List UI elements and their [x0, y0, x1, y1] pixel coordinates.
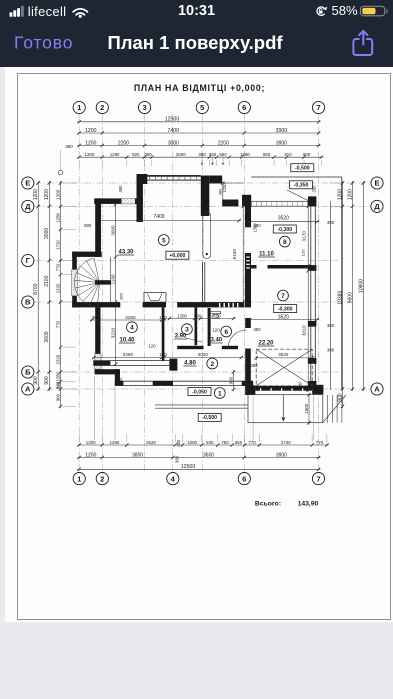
svg-text:3600: 3600 [44, 331, 50, 342]
svg-text:6: 6 [242, 474, 246, 483]
svg-text:3000: 3000 [176, 152, 186, 157]
svg-text:8: 8 [283, 239, 287, 246]
svg-text:120: 120 [159, 352, 167, 357]
svg-text:4: 4 [171, 474, 176, 483]
svg-text:2200: 2200 [118, 140, 129, 146]
svg-text:-0,050: -0,050 [192, 389, 207, 395]
svg-text:1300: 1300 [177, 313, 187, 318]
svg-text:1720: 1720 [55, 240, 60, 250]
svg-text:380: 380 [250, 363, 258, 368]
svg-text:900: 900 [303, 152, 311, 157]
svg-text:1200: 1200 [84, 152, 94, 157]
svg-text:3220: 3220 [111, 328, 116, 339]
svg-text:900: 900 [229, 376, 234, 384]
svg-text:2100: 2100 [44, 275, 50, 286]
svg-text:3170: 3170 [301, 231, 306, 242]
svg-text:ПЛАН НА ВІДМІТЦІ +0,000;: ПЛАН НА ВІДМІТЦІ +0,000; [134, 83, 265, 93]
svg-text:+0,000: +0,000 [169, 253, 185, 259]
svg-text:1280: 1280 [55, 371, 60, 381]
svg-text:2: 2 [100, 103, 104, 112]
svg-text:380: 380 [327, 220, 335, 225]
svg-text:380: 380 [119, 292, 124, 299]
svg-text:4: 4 [130, 325, 134, 332]
svg-text:1: 1 [218, 390, 222, 397]
svg-text:120: 120 [159, 315, 167, 320]
svg-text:22.20: 22.20 [258, 341, 274, 347]
svg-text:3900: 3900 [276, 140, 287, 146]
svg-text:3: 3 [142, 103, 146, 112]
svg-text:380: 380 [118, 377, 123, 384]
svg-text:1690: 1690 [240, 152, 250, 157]
svg-text:1: 1 [77, 474, 82, 483]
svg-text:2320: 2320 [55, 354, 60, 364]
svg-text:380: 380 [92, 315, 100, 320]
svg-text:770: 770 [248, 440, 256, 445]
svg-text:Д: Д [25, 202, 31, 211]
svg-text:Е: Е [374, 179, 379, 188]
svg-text:3260: 3260 [123, 352, 134, 357]
svg-text:-0,300: -0,300 [278, 306, 293, 312]
svg-text:3.90: 3.90 [175, 334, 187, 340]
svg-text:1280: 1280 [110, 440, 120, 445]
svg-text:390: 390 [194, 313, 202, 318]
svg-text:А: А [374, 385, 380, 394]
svg-text:9600: 9600 [347, 292, 353, 303]
svg-text:380: 380 [198, 152, 206, 157]
svg-text:1200: 1200 [337, 189, 343, 200]
svg-text:380: 380 [145, 152, 153, 157]
svg-text:1000: 1000 [187, 440, 197, 445]
svg-text:380: 380 [118, 185, 123, 193]
svg-text:900: 900 [337, 393, 343, 402]
svg-text:Всього:: Всього: [255, 501, 281, 508]
svg-text:1: 1 [77, 103, 82, 112]
svg-text:10.40: 10.40 [119, 338, 135, 344]
svg-text:7400: 7400 [168, 128, 180, 134]
svg-text:2740: 2740 [281, 440, 291, 445]
svg-text:1200: 1200 [85, 128, 97, 134]
svg-text:770: 770 [55, 320, 60, 328]
svg-text:11.10: 11.10 [259, 252, 274, 258]
svg-text:380: 380 [55, 381, 60, 388]
svg-text:7: 7 [281, 293, 285, 300]
svg-text:3000: 3000 [44, 228, 50, 239]
svg-text:380: 380 [327, 323, 335, 328]
svg-text:5100: 5100 [232, 249, 237, 260]
svg-text:3260: 3260 [125, 315, 136, 320]
svg-text:1320: 1320 [55, 283, 60, 293]
svg-text:650: 650 [263, 152, 271, 157]
svg-text:120: 120 [301, 249, 306, 256]
svg-text:8700: 8700 [33, 283, 39, 294]
svg-text:4.80: 4.80 [184, 361, 196, 367]
svg-text:10800: 10800 [358, 279, 364, 293]
svg-text:380: 380 [253, 327, 261, 332]
svg-text:1200: 1200 [347, 189, 353, 200]
svg-text:900: 900 [55, 393, 60, 401]
svg-text:3900: 3900 [276, 128, 288, 134]
svg-text:3.40: 3.40 [210, 338, 222, 344]
svg-text:10380: 10380 [337, 291, 343, 305]
svg-text:1200: 1200 [33, 189, 39, 200]
svg-text:5: 5 [200, 103, 205, 112]
svg-text:6: 6 [224, 329, 228, 336]
svg-text:650: 650 [235, 440, 243, 445]
svg-text:770: 770 [316, 440, 324, 445]
svg-text:7: 7 [316, 103, 320, 112]
svg-text:380: 380 [84, 223, 92, 228]
svg-text:1280: 1280 [110, 152, 120, 157]
svg-text:3520: 3520 [278, 314, 289, 320]
svg-text:840: 840 [206, 440, 214, 445]
svg-text:650: 650 [209, 152, 217, 157]
svg-text:120: 120 [212, 328, 220, 333]
svg-text:12500: 12500 [165, 116, 180, 122]
svg-text:750: 750 [221, 440, 229, 445]
svg-text:1200: 1200 [86, 440, 96, 445]
svg-text:Д: Д [374, 202, 380, 211]
svg-text:1200: 1200 [44, 189, 50, 200]
svg-text:Г: Г [26, 256, 31, 265]
svg-text:2200: 2200 [218, 140, 229, 146]
svg-text:6310: 6310 [301, 325, 306, 336]
svg-text:3520: 3520 [278, 216, 289, 222]
svg-text:6: 6 [242, 103, 246, 112]
svg-text:-0,500: -0,500 [295, 166, 310, 172]
svg-text:900: 900 [44, 376, 50, 385]
svg-text:-0,500: -0,500 [202, 415, 217, 421]
svg-text:4020: 4020 [198, 352, 209, 357]
svg-text:5: 5 [162, 237, 166, 244]
svg-text:7400: 7400 [153, 214, 164, 220]
svg-text:920: 920 [132, 152, 140, 157]
svg-text:В: В [25, 298, 31, 307]
svg-text:120: 120 [148, 344, 156, 349]
svg-text:380: 380 [175, 455, 180, 463]
svg-text:1280: 1280 [55, 212, 60, 222]
svg-text:910: 910 [284, 152, 292, 157]
svg-text:Б: Б [25, 368, 31, 377]
svg-text:650: 650 [219, 152, 227, 157]
svg-text:3000: 3000 [168, 140, 179, 146]
svg-text:7: 7 [316, 474, 320, 483]
svg-text:43.30: 43.30 [118, 250, 134, 256]
svg-text:2: 2 [210, 361, 214, 368]
svg-text:1200: 1200 [85, 452, 96, 458]
svg-text:Е: Е [25, 179, 30, 188]
svg-text:380: 380 [218, 188, 223, 195]
svg-text:2100: 2100 [111, 274, 116, 285]
svg-text:900: 900 [33, 376, 39, 385]
svg-text:3000: 3000 [111, 225, 116, 236]
svg-text:380: 380 [65, 144, 73, 149]
svg-text:2: 2 [100, 474, 104, 483]
svg-text:620: 620 [213, 313, 221, 318]
svg-text:1380: 1380 [253, 223, 258, 233]
svg-text:3520: 3520 [278, 352, 289, 357]
svg-text:А: А [25, 385, 31, 394]
svg-text:-0,300: -0,300 [277, 227, 292, 233]
svg-text:380: 380 [327, 348, 335, 353]
svg-text:380: 380 [297, 381, 302, 389]
svg-text:3600: 3600 [203, 452, 214, 458]
svg-text:12500: 12500 [181, 464, 196, 470]
svg-text:1200: 1200 [55, 189, 60, 199]
svg-text:143,90: 143,90 [298, 501, 319, 508]
svg-text:380: 380 [176, 439, 181, 447]
svg-text:1200: 1200 [85, 140, 96, 146]
svg-text:770: 770 [55, 263, 60, 271]
svg-text:-0,350: -0,350 [294, 183, 309, 189]
svg-text:3800: 3800 [132, 452, 143, 458]
svg-text:2520: 2520 [146, 440, 156, 445]
svg-text:3900: 3900 [276, 452, 287, 458]
svg-text:1500: 1500 [304, 403, 309, 413]
